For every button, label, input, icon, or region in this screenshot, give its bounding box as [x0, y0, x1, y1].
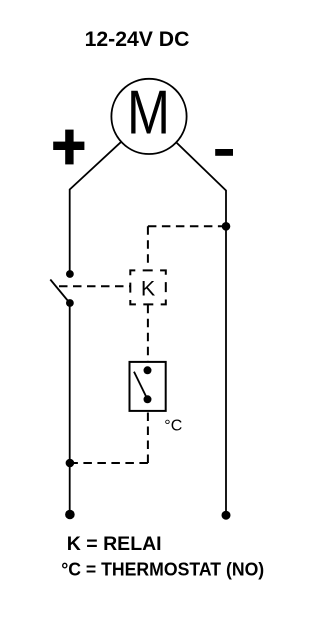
- svg-text:°C: °C: [164, 418, 182, 435]
- svg-text:12-24V DC: 12-24V DC: [85, 28, 190, 51]
- svg-text:K: K: [141, 277, 156, 301]
- svg-text:M: M: [127, 79, 170, 148]
- svg-text:°C = THERMOSTAT (NO): °C = THERMOSTAT (NO): [61, 560, 264, 580]
- svg-text:K = RELAI: K = RELAI: [67, 533, 162, 555]
